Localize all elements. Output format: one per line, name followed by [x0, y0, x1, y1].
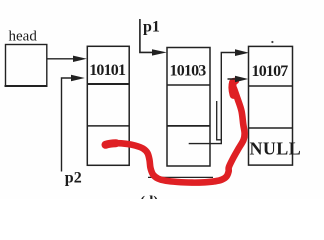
svg-text:(d): (d) — [140, 194, 158, 199]
svg-text:p1: p1 — [143, 19, 160, 36]
svg-text:10103: 10103 — [170, 63, 207, 80]
svg-text:p2: p2 — [65, 170, 82, 187]
svg-text:head: head — [9, 29, 38, 45]
svg-text:NULL: NULL — [250, 139, 302, 159]
svg-text:10107: 10107 — [252, 63, 289, 80]
svg-text:10101: 10101 — [89, 62, 126, 79]
